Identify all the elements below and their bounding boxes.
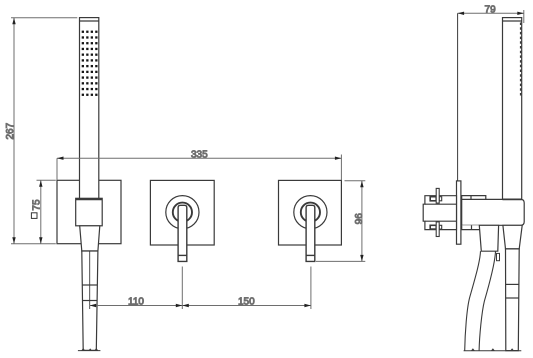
mounting screw top (side view) [430, 188, 442, 203]
dimension square-75 (plate height) [31, 180, 55, 243]
svg-text:96: 96 [354, 213, 365, 225]
valve 2 inner ring [301, 203, 320, 222]
shower holder block (front view) [76, 198, 103, 226]
handle cone below holder (front view) [80, 226, 100, 251]
hose outlet cone (side view) [479, 225, 498, 251]
svg-text:79: 79 [485, 5, 497, 16]
valve 1 inner ring [173, 203, 192, 222]
valve 1 square plate (front view) [150, 180, 214, 245]
hose tube (front view) [82, 251, 98, 350]
valve 1 outer ring [166, 196, 199, 229]
hose clip (side view) [497, 253, 500, 260]
svg-text:110: 110 [128, 297, 144, 308]
dimension 267 (left vertical) [5, 18, 77, 244]
shower handle cone (side view) [503, 225, 522, 249]
bracket body (side view) [462, 199, 525, 225]
svg-text:150: 150 [238, 297, 255, 308]
valve 2 square plate (front view) [279, 180, 342, 245]
curved hose (side view) [465, 251, 496, 350]
valve 2 outer ring [294, 196, 327, 229]
svg-text:335: 335 [191, 149, 208, 160]
hand shower profile (side view) [503, 18, 522, 200]
holder arm lower step (side view) [462, 225, 480, 229]
svg-text:267: 267 [5, 122, 16, 139]
baseline break (side view bottom) [464, 348, 522, 351]
svg-text:75: 75 [32, 199, 43, 211]
holder arm upper step (side view) [462, 196, 486, 200]
dimension 335 (top horizontal) [57, 149, 341, 180]
mounting screw bottom (side view) [430, 222, 442, 237]
wall plate profile (side view) [457, 181, 461, 244]
hand shower body (front view) [80, 18, 99, 199]
in-wall valve body (side view) [423, 196, 456, 230]
dimension 110 and 150 (bottom horizontal) [90, 267, 311, 310]
hose break symbol (front view bottom) [78, 348, 101, 351]
dimension 79 (side view top) [458, 5, 524, 23]
shower hose tube (side view) [506, 249, 520, 351]
wall plate (front view, square escutcheon 75x75) [57, 180, 121, 243]
valve 2 lever [306, 205, 315, 261]
hand shower spray nozzles (dot grid) [82, 31, 98, 96]
wall line (side view) [457, 13, 459, 180]
dimension 96 (right of valve 2) [316, 181, 365, 262]
valve 1 lever [178, 205, 187, 261]
